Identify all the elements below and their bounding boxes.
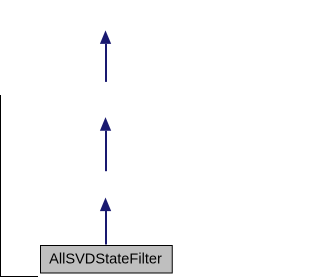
inheritance arrow 3 (bottom, from AllSVDStateFilter node) — [100, 198, 111, 245]
inheritance arrow 1 (top, points to clipped base class) — [100, 30, 111, 82]
inheritance arrow 2 (middle) — [100, 117, 111, 171]
clipped neighbor node border (horizontal line at bottom-left image edge) — [0, 276, 38, 277]
svg-text:AllSVDStateFilter: AllSVDStateFilter — [49, 252, 162, 268]
clipped neighbor node border (vertical line at left image edge) — [0, 95, 2, 277]
node box AllSVDStateFilter (current class, grey fill) — [41, 246, 173, 274]
